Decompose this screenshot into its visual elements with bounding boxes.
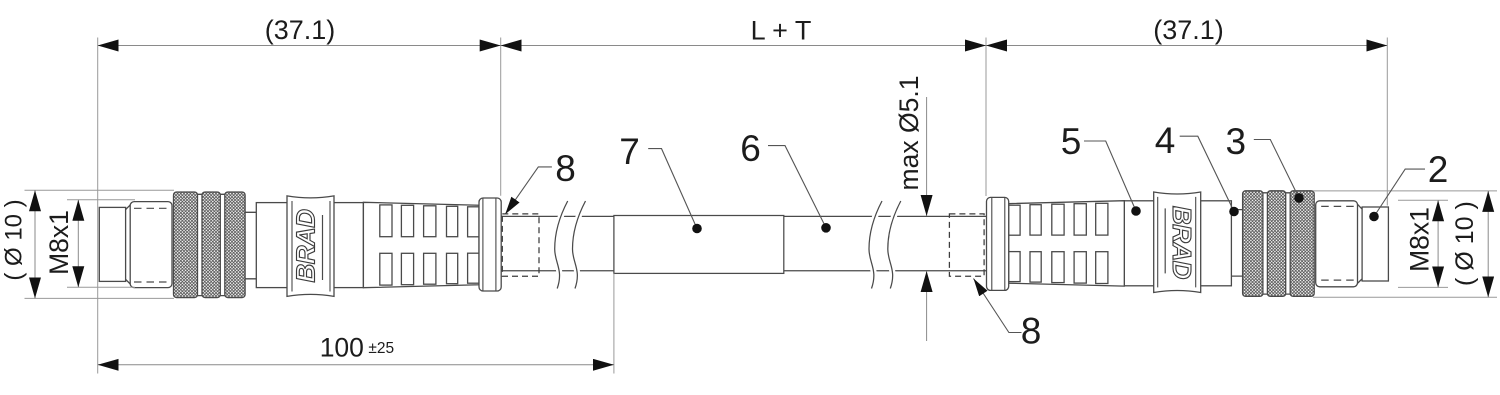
break wavy lines right	[869, 201, 882, 289]
cable right segment	[784, 216, 987, 270]
dim dia10 left	[34, 190, 36, 298]
svg-text:6: 6	[740, 128, 761, 169]
left connector body (male M8)	[99, 192, 501, 298]
dim (37.1) right	[986, 45, 1387, 47]
break wavy lines	[555, 201, 901, 289]
dim L + T	[501, 45, 986, 47]
dot 4	[1229, 207, 1239, 217]
slots top row	[380, 205, 392, 237]
svg-text:( Ø 10 ): ( Ø 10 )	[1, 199, 28, 280]
dim max 5.1	[926, 97, 928, 216]
leader arrow label 8 left	[505, 167, 552, 214]
svg-text:L + T: L + T	[751, 16, 812, 46]
extension lines horizontal right	[1313, 191, 1497, 297]
BRAD logo text	[291, 209, 321, 283]
svg-text:4: 4	[1155, 120, 1176, 161]
dot 3	[1294, 193, 1304, 203]
svg-text:±25: ±25	[368, 340, 394, 357]
svg-text:3: 3	[1226, 121, 1247, 162]
dim M8x1 left	[77, 200, 79, 287]
svg-text:BRAD: BRAD	[291, 209, 321, 283]
svg-text:( Ø 10 ): ( Ø 10 )	[1451, 201, 1479, 286]
leader label 7	[648, 149, 697, 229]
svg-text:M8x1: M8x1	[44, 210, 74, 275]
knurl gap lines	[196, 194, 226, 295]
extension lines horizontal left	[25, 190, 1498, 298]
dot 2	[1369, 212, 1379, 222]
svg-text:8: 8	[1021, 311, 1042, 352]
dashed box right (8)	[949, 214, 984, 276]
collar	[479, 198, 501, 291]
tip	[99, 207, 125, 281]
dim 100	[98, 364, 614, 366]
leader label 3	[1254, 140, 1299, 199]
dashed box left (8)	[502, 214, 539, 276]
dim M8x1 right	[1437, 200, 1439, 287]
svg-text:7: 7	[619, 131, 640, 172]
leader label 4	[1180, 136, 1234, 211]
right connector body: 180deg rotation of left	[986, 191, 1388, 297]
svg-text:(37.1): (37.1)	[265, 15, 336, 45]
leader label 2	[1374, 169, 1425, 216]
dim (37.1) left	[98, 45, 501, 47]
chamfer lines	[126, 204, 132, 286]
knurl band 3	[225, 192, 245, 298]
svg-text:(37.1): (37.1)	[1153, 15, 1224, 45]
svg-text:2: 2	[1428, 149, 1449, 190]
strain relief	[363, 202, 479, 287]
svg-text:8: 8	[555, 148, 576, 189]
BRAD band	[287, 196, 334, 297]
dot 5	[1131, 206, 1141, 216]
svg-text:100: 100	[320, 333, 364, 363]
neck	[245, 212, 256, 278]
svg-text:M8x1: M8x1	[1405, 207, 1435, 272]
knurl band 1	[174, 192, 198, 298]
thread section	[130, 202, 172, 288]
dimension lines	[35, 46, 1488, 365]
dim dia10 right	[1487, 191, 1489, 297]
body	[256, 203, 363, 288]
dot 7	[692, 224, 702, 234]
slots bottom row	[380, 253, 392, 285]
dot 6	[821, 223, 831, 233]
cable left segment	[501, 216, 986, 270]
svg-text:5: 5	[1061, 121, 1082, 162]
leader label 6	[768, 146, 826, 228]
svg-text:max Ø5.1: max Ø5.1	[894, 76, 924, 191]
extension lines vertical	[98, 38, 1388, 374]
thread dashes	[134, 208, 169, 282]
break wavy lines left (white halo)	[555, 201, 901, 289]
knurl band 2	[202, 192, 220, 298]
leader arrow label 8 right	[974, 279, 1022, 333]
leader label 5	[1084, 141, 1136, 211]
braid section 7	[614, 216, 784, 274]
